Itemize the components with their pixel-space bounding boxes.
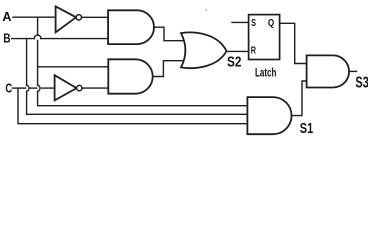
wire input B (left of hop)	[12, 38, 35, 40]
wire OR output S2 to latch R input	[226, 50, 249, 52]
svg-text:S2: S2	[227, 53, 241, 70]
svg-text:Q: Q	[268, 16, 274, 28]
wire hop of A vertical over C wire	[38, 85, 40, 91]
wire B to AND1 bottom input	[41, 38, 108, 40]
wire input C segment 2	[31, 87, 37, 89]
wire input C segment 1	[13, 87, 26, 89]
svg-text:Latch: Latch	[255, 67, 276, 80]
svg-text:S3: S3	[355, 74, 368, 91]
node C junction vertical to bottom bus 3	[18, 88, 247, 124]
svg-text:B: B	[3, 31, 10, 45]
wire AND2 output to OR bottom input	[153, 61, 184, 77]
inverter U1 bubble	[76, 15, 81, 20]
svg-text:R: R	[251, 44, 257, 56]
wire A vertical to bottom bus 1	[38, 91, 248, 105]
latch U6 box	[249, 15, 280, 60]
and-gate AND2	[108, 59, 152, 93]
svg-text:S: S	[251, 17, 256, 29]
wire A vertical between B row and C row	[37, 40, 39, 85]
wire AND S3 output	[349, 70, 357, 72]
wire input C segment 3 to inverter U2	[42, 87, 55, 89]
or-gate U5	[181, 32, 227, 68]
wire hop of B over A vertical	[34, 35, 41, 39]
stray dot artifact	[205, 9, 207, 11]
wire latch Q output to AND S3 top input	[280, 23, 307, 63]
wire inverter U1 output to AND1	[82, 16, 109, 18]
and-gate AND1	[108, 10, 154, 44]
wire input A	[13, 16, 56, 18]
svg-text:A: A	[2, 9, 11, 24]
node B junction vertical drop	[26, 39, 28, 86]
inverter U1 triangle	[56, 6, 77, 32]
and-gate S1 (3-input)	[247, 97, 291, 134]
wire hop of B vertical over C wire	[27, 85, 29, 91]
wire latch S input stub	[232, 21, 249, 23]
inverter U2 triangle	[55, 75, 77, 100]
inverter U2 bubble	[77, 85, 82, 90]
and-gate S3 output gate	[307, 55, 349, 87]
wire B vertical to bottom bus 2	[27, 91, 248, 114]
svg-text:C: C	[5, 82, 12, 96]
wire AND1 output to OR top input	[154, 27, 184, 41]
svg-text:S1: S1	[300, 119, 313, 136]
wire inverter U2 output to AND2	[82, 87, 108, 89]
node A junction vertical drop (upper part)	[37, 17, 39, 35]
wire A branch to AND2 top input	[38, 66, 109, 68]
wire AND S1 output to AND S3 bottom input	[292, 81, 307, 116]
